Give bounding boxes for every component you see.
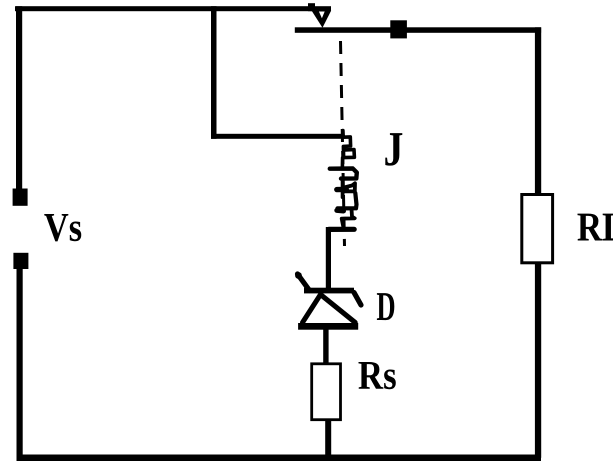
wire right vertical lower (535, 263, 541, 458)
wire top horizontal (15, 6, 331, 11)
switch contact arrow (312, 11, 332, 28)
wire left vertical upper (16, 6, 22, 190)
wire diode to resistor (323, 329, 328, 365)
resistor Rs (312, 364, 341, 420)
zener diode D left tail (298, 274, 310, 291)
wire middle vertical (211, 6, 217, 139)
dashed line relay linkage (341, 41, 345, 246)
relay coil J (329, 131, 357, 230)
wire right vertical upper (535, 27, 541, 195)
resistor RL (522, 195, 553, 263)
node junction square (390, 20, 407, 38)
zener diode D right tail (354, 293, 361, 306)
wire left vertical lower (17, 269, 23, 459)
zener diode D anode base bar (298, 323, 358, 330)
source Vs terminal bottom (13, 253, 28, 269)
source Vs terminal top (13, 189, 28, 206)
label RL (577, 214, 613, 241)
wire bottom horizontal (17, 455, 542, 462)
label Vs (44, 214, 81, 241)
wire upper right horizontal (295, 27, 541, 33)
label D (377, 293, 394, 320)
wire middle horizontal (211, 134, 341, 139)
wire resistor to bottom (325, 419, 331, 457)
wire coil to diode (326, 227, 331, 290)
zener diode D triangle (303, 295, 356, 323)
zener diode D cathode bar (304, 288, 354, 294)
switch contact tick (308, 3, 315, 11)
label J (385, 133, 402, 166)
label Rs (358, 362, 395, 389)
